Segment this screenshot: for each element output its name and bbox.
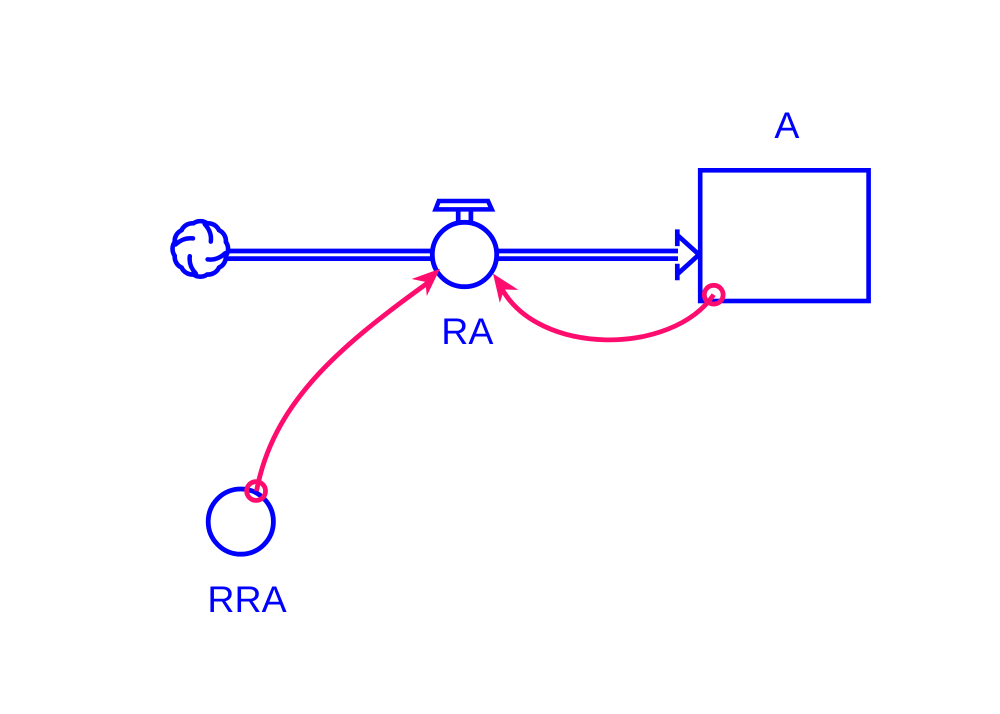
cloud source (pinwheel cloud) xyxy=(173,221,229,277)
wire: influence link RRA to valve RA xyxy=(257,282,430,491)
svg-text:RRA: RRA xyxy=(207,578,286,620)
stock A (level rectangle) xyxy=(700,170,868,301)
valve RA circle xyxy=(432,222,496,286)
arrowhead of link RRA->RA xyxy=(412,269,440,296)
valve RA handle bar xyxy=(436,201,492,209)
wire: influence link A to valve RA xyxy=(502,288,714,340)
connection ring on stock A corner xyxy=(704,285,723,304)
connection ring on RRA xyxy=(247,482,266,501)
auxiliary RRA circle xyxy=(208,489,273,554)
valve RA stem xyxy=(458,208,471,226)
svg-text:RA: RA xyxy=(441,310,493,352)
arrowhead of link A->RA xyxy=(493,274,518,303)
wire: flow pipe double line from cloud to stock A xyxy=(200,251,678,259)
svg-text:A: A xyxy=(774,104,799,146)
flow arrowhead into stock A xyxy=(677,229,699,280)
